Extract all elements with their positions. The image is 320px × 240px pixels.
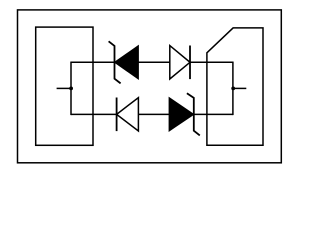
wire right stub — [233, 87, 246, 89]
node left junction — [69, 87, 73, 91]
connector box J1 — [36, 27, 93, 145]
wire left vertical — [70, 62, 72, 116]
node right junction — [231, 87, 235, 91]
diode D4 zener filled pointing right — [169, 93, 200, 135]
diode D1 zener filled pointing left — [109, 41, 139, 83]
diode D3 open pointing left — [117, 98, 139, 132]
wire top rail — [71, 61, 233, 63]
wire right vertical — [232, 62, 234, 116]
wire left stub — [57, 87, 71, 89]
IC box U1 — [207, 28, 263, 145]
wire bottom rail — [71, 113, 233, 115]
diode D2 open pointing right — [170, 46, 190, 80]
